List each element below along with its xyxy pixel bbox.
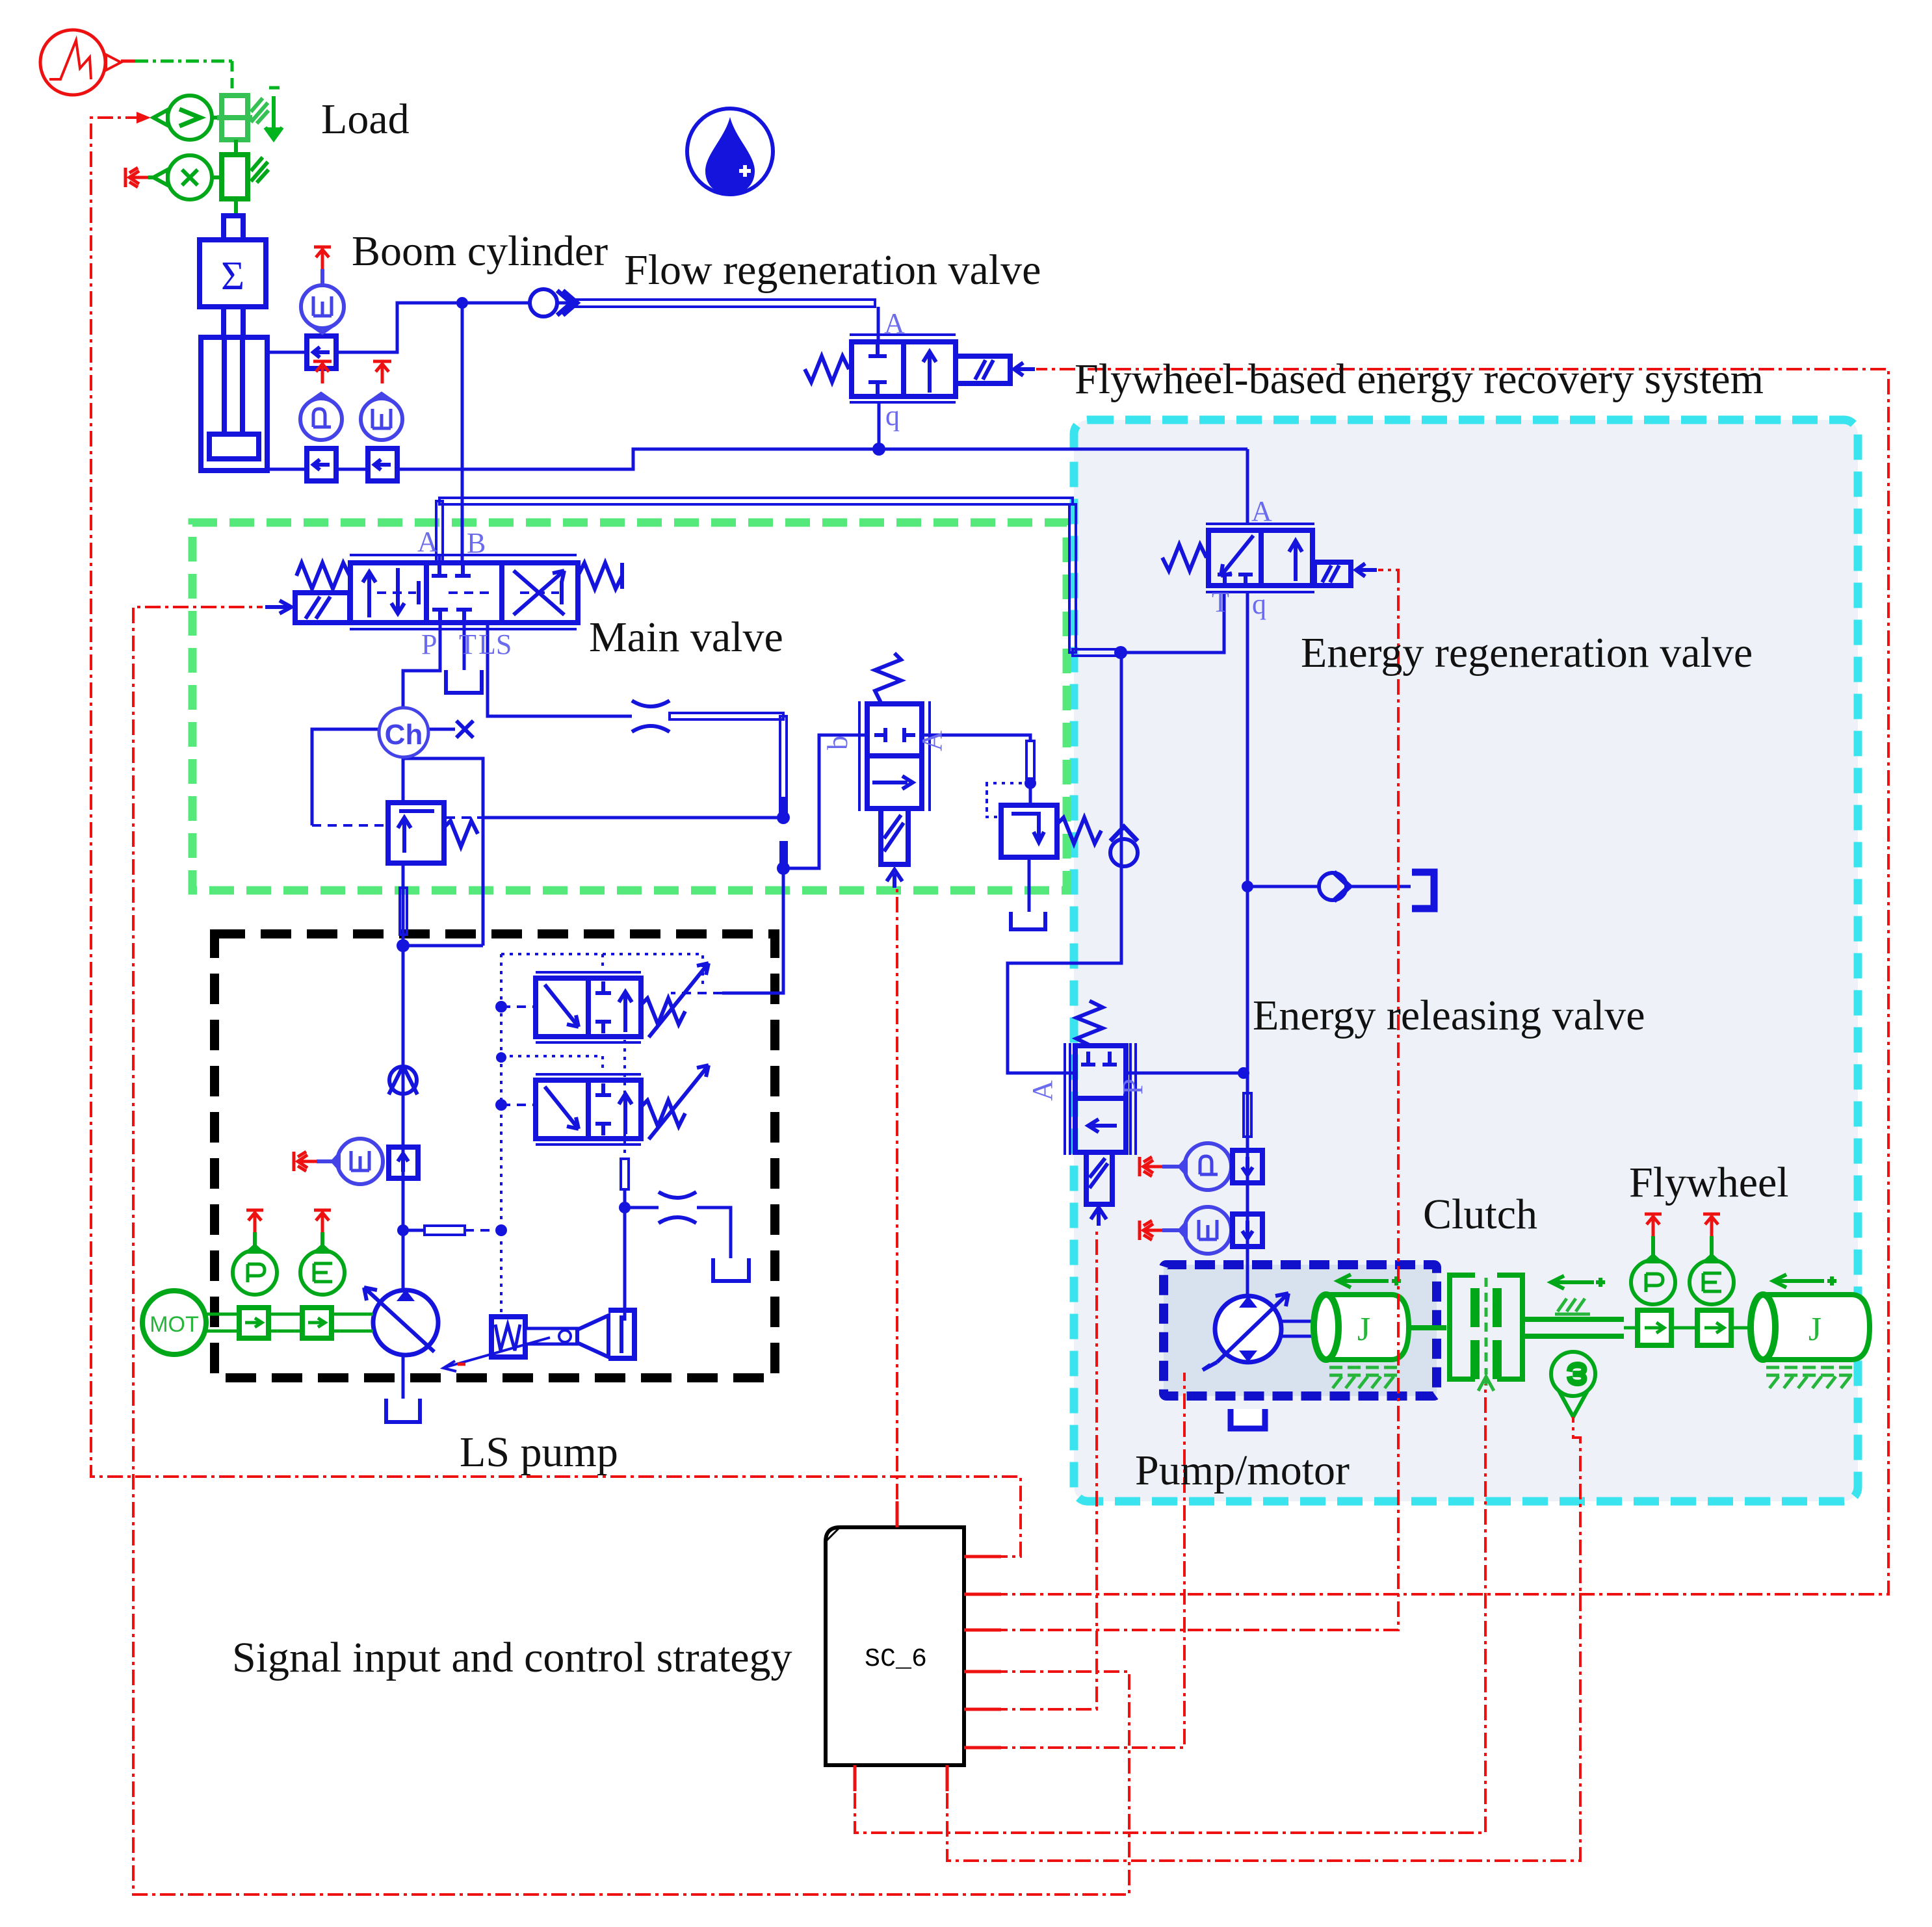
svg-text:SC_6: SC_6 <box>865 1645 927 1674</box>
red arrow above E (LS pump) <box>314 1210 331 1232</box>
sensor circle pressure (releasing line) <box>1180 1143 1231 1190</box>
svg-text:A: A <box>1251 495 1272 527</box>
sensor circle P (flywheel) <box>1631 1256 1675 1304</box>
pipe LS to right <box>670 713 783 719</box>
red arrow above flow sensor <box>314 247 331 269</box>
sensor circle E (flywheel) <box>1690 1256 1734 1304</box>
flow regeneration valve <box>805 335 1010 402</box>
wire red pump/motor displacement signal (pin6) <box>964 1373 1184 1748</box>
wire dotted pilot of relief <box>987 783 1030 817</box>
actuator right <box>1314 562 1351 586</box>
wire dotted T rail between valves <box>623 1040 626 1159</box>
wire dashed into LS control valve <box>671 992 722 994</box>
check valve on regen drop line <box>1110 827 1138 866</box>
svg-text:MOT: MOT <box>150 1312 199 1337</box>
wire pump to tank below box <box>402 1354 405 1399</box>
wire T rail to junction <box>623 1189 627 1208</box>
wire pilot valve A port to relief <box>921 735 1030 741</box>
main valve 4/3 <box>295 555 622 629</box>
svg-text:LS pump: LS pump <box>460 1429 618 1476</box>
wire junction to bypass <box>403 944 483 948</box>
pump displacement actuator <box>443 1310 634 1371</box>
node flow valve q junction <box>872 443 885 456</box>
wire regen valve q line down to pump <box>1246 592 1249 1295</box>
left cell closed stubs <box>1218 575 1253 583</box>
electric motor MOT <box>142 1291 206 1354</box>
svg-text:Energy releasing valve: Energy releasing valve <box>1253 992 1645 1039</box>
compensator valve <box>388 803 478 863</box>
signal box E (flywheel) <box>1697 1310 1755 1345</box>
wire junction to relief valve <box>1029 783 1032 805</box>
sensor tap box (q line upper) <box>1233 1150 1262 1183</box>
pipe below LS junction <box>779 841 788 866</box>
wire junction to orifice <box>625 1208 731 1258</box>
wire pipe end down to valve A <box>877 307 880 342</box>
svg-text:Ch: Ch <box>385 719 423 751</box>
blue arrow into main valve actuator <box>265 601 291 614</box>
pipe LS down <box>780 716 787 818</box>
wire Ch bottom to compensator top <box>402 757 405 803</box>
actuator right <box>956 356 1010 383</box>
cell3 cross <box>514 571 564 615</box>
sensor tap box e <box>368 448 397 481</box>
pipe to flow regeneration valve <box>568 300 875 307</box>
box pump/motor (blue dash-dot, light fill) <box>1164 1265 1437 1396</box>
ground hatch velocity <box>251 98 268 123</box>
bottom cell arrow <box>1088 1119 1117 1132</box>
bottom cell arrow right <box>872 776 913 789</box>
svg-text:T: T <box>459 628 476 660</box>
rod load to sigma <box>234 199 238 216</box>
wire LS down into LS pump box <box>722 868 783 993</box>
node pump line lower junction <box>397 1224 409 1236</box>
inertia J (pump side) <box>1314 1295 1409 1360</box>
right cell open arrow <box>923 352 936 393</box>
svg-text:B: B <box>467 527 486 559</box>
left cell diagonal arrow <box>1221 536 1253 576</box>
red sink arrow of x transducer <box>125 168 148 187</box>
svg-text:b: b <box>822 736 854 750</box>
wire Ch left pilot to compensator <box>312 729 379 825</box>
ground hatch transducer <box>251 157 268 183</box>
pipe down to relief <box>1026 741 1034 779</box>
wire sensor box to riser <box>336 303 532 352</box>
power sensor circle (LS pump) <box>333 1139 383 1184</box>
red arrow sink (pressure sensor) <box>1140 1157 1162 1176</box>
element damper on pilot <box>424 1226 465 1235</box>
wire check valve branch <box>1247 885 1411 888</box>
relief valve pilot <box>987 783 1101 857</box>
wire bypass right of compensator <box>403 758 483 946</box>
signal box P (LS pump) <box>239 1308 268 1338</box>
svg-text:Energy regeneration valve: Energy regeneration valve <box>1301 629 1753 677</box>
LS pump control valve upper <box>536 963 709 1042</box>
sensor tap box p <box>307 448 336 481</box>
sensor tap box q (rod side) <box>307 336 336 369</box>
LS pump variable displacement pump <box>364 1287 438 1355</box>
pipe on pump line at green box bottom <box>400 888 407 935</box>
svg-text:P: P <box>421 628 437 660</box>
check valve on q branch <box>1319 872 1350 901</box>
wire compensator bottom down <box>402 863 405 1293</box>
wire dotted rect upper valve <box>501 954 703 988</box>
position transducer body <box>222 155 248 199</box>
box main valve (green dashed) <box>192 523 1067 890</box>
energy regeneration valve <box>1162 524 1351 592</box>
wire main valve LS port to orifice <box>488 623 632 716</box>
wire red main valve pilot signal (pin4) <box>133 607 1129 1895</box>
blue arrow into regen valve actuator <box>1356 563 1377 576</box>
pipe on q line <box>1244 1093 1251 1137</box>
wire pump junction to element <box>403 1229 424 1232</box>
signal generator (red circle with waveform) <box>40 30 121 95</box>
position transducer circle x <box>153 140 236 200</box>
tank relief <box>1011 912 1045 929</box>
wire red energy-regen valve signal (pin3) <box>964 570 1398 1630</box>
node pilot dots <box>495 1001 507 1013</box>
wire relief to tank <box>1028 857 1031 912</box>
blue arrow into flow valve actuator <box>1014 363 1035 376</box>
green signal wire from generator <box>121 60 135 63</box>
wire LS to compensator spring <box>484 816 780 820</box>
wire regen valve T stub down <box>1121 592 1224 653</box>
wire cylinder rod-side port to sensor box <box>267 351 307 354</box>
plug X <box>456 721 473 738</box>
svg-text:Main valve: Main valve <box>589 614 783 661</box>
wire red clutch signal (bottom pin 1) <box>855 1384 1485 1833</box>
wire regen valve A stub <box>1246 449 1249 524</box>
wire junction to pilot valve b port <box>783 735 867 868</box>
boom cylinder <box>201 337 267 471</box>
green motion arrow <box>265 88 282 139</box>
energy sensor circle e <box>361 394 402 440</box>
svg-text:Σ: Σ <box>221 254 244 298</box>
svg-text:Flow regeneration valve: Flow regeneration valve <box>624 246 1041 294</box>
pipe A to cyan box horizontal <box>439 498 1073 504</box>
svg-text:q: q <box>885 400 900 432</box>
check valve boom line <box>530 289 577 317</box>
svg-text:q: q <box>1252 588 1266 620</box>
svg-text:Flywheel-based energy recovery: Flywheel-based energy recovery system <box>1075 356 1764 403</box>
green arrow over flywheel <box>1773 1274 1836 1287</box>
red arrow sink (energy sensor) <box>1140 1221 1162 1240</box>
svg-text:Signal input and control strat: Signal input and control strategy <box>232 1634 792 1681</box>
wire flow valve q stub <box>878 402 881 449</box>
closed port bracket <box>1412 872 1434 909</box>
node LS-b junction <box>777 862 790 875</box>
sensor circle E (LS pump) <box>300 1246 345 1295</box>
wire dashed pilots to valves <box>501 1007 536 1105</box>
spring left <box>1162 545 1207 571</box>
wire dashed element to pilot rail <box>465 1229 501 1232</box>
pressure sensor circle p <box>300 394 342 440</box>
shaft clutch to flywheel <box>1522 1319 1638 1336</box>
top cell closed stubs <box>874 728 915 742</box>
wire red velocity command (pin1) <box>91 118 1021 1557</box>
sensor tap box (pump line) <box>389 1147 418 1178</box>
node T junction <box>619 1202 631 1213</box>
port labels energy releasing valve <box>1026 1080 1058 1101</box>
wire red compensator pilot (top pin) <box>896 889 898 1527</box>
energy releasing valve <box>1065 1001 1136 1226</box>
svg-text:A: A <box>884 307 905 339</box>
Ch chamber circle <box>379 708 428 757</box>
wire dotted rect lower valve <box>501 1056 603 1076</box>
flywheel inertia J <box>1751 1295 1870 1360</box>
clutch dashed arrow <box>1478 1377 1494 1391</box>
svg-text:Pump/motor: Pump/motor <box>1135 1447 1350 1494</box>
rod sigma to cylinder <box>224 307 243 337</box>
port labels pilot valve <box>822 736 854 750</box>
pilot compensated valve (vertical, right) <box>859 653 930 888</box>
green line x transducer to sink <box>148 175 153 179</box>
node LS-compensator junction <box>777 811 790 824</box>
svg-text:J: J <box>1808 1311 1821 1348</box>
wire red flow-regen valve signal (pin2) <box>964 369 1888 1594</box>
shaft MOT to pump <box>206 1314 373 1331</box>
node relief junction <box>1025 777 1036 789</box>
spring left <box>805 356 849 382</box>
wire releasing valve P port <box>1125 1072 1244 1075</box>
spring left <box>296 563 350 589</box>
svg-text:LS: LS <box>478 628 512 660</box>
cell2 closed <box>432 565 471 576</box>
port stubs A B <box>439 555 462 563</box>
svg-text:T: T <box>1212 586 1229 618</box>
red arrow between tap box and pressure sensor <box>313 361 332 383</box>
actuator left hatched <box>295 593 350 623</box>
svg-text:Flywheel: Flywheel <box>1629 1159 1789 1206</box>
wire cylinder bottom port to long A-line <box>267 449 1247 469</box>
pipe down inside cyan border <box>1069 504 1076 653</box>
check valve pump line <box>389 1066 417 1094</box>
wire main valve P port to Ch <box>403 623 440 708</box>
wire main valve T port to tank <box>463 623 466 670</box>
svg-text:P: P <box>1117 1079 1149 1094</box>
red arrow sink (power sensor) <box>294 1152 317 1171</box>
pipe on T rail <box>621 1159 629 1189</box>
red arrow above P flywheel <box>1645 1214 1662 1236</box>
top cell closed stubs <box>1081 1052 1117 1065</box>
svg-text:Load: Load <box>321 96 410 143</box>
wire dotted pilot rail <box>500 954 503 1317</box>
node q-check junction <box>1242 881 1253 892</box>
node releasing valve P junction <box>1238 1067 1249 1079</box>
spring top <box>1077 1001 1103 1045</box>
svg-text:A: A <box>1026 1080 1058 1101</box>
svg-text:ω: ω <box>1558 1362 1591 1386</box>
ground hatch under J <box>1329 1367 1398 1388</box>
velocity source damper body <box>217 96 252 140</box>
wire dashed pilot into compensator <box>312 824 388 827</box>
pump/motor variable unit <box>1203 1293 1288 1370</box>
signal box P (flywheel) <box>1638 1310 1697 1345</box>
spring top <box>875 653 901 704</box>
clutch dashed center <box>1485 1278 1488 1365</box>
green dashed drop to load <box>231 61 234 94</box>
wire Ch right to plug <box>428 728 455 731</box>
box LS pump (black dash) <box>215 934 775 1378</box>
actuator bottom hatched <box>881 808 908 864</box>
svg-text:Boom cylinder: Boom cylinder <box>352 227 608 275</box>
svg-text:A: A <box>417 526 438 558</box>
tank LS pump right <box>713 1258 749 1281</box>
signal box E (LS pump) <box>302 1308 332 1338</box>
wire red energy-releasing valve signal (pin5) <box>964 1227 1097 1709</box>
node regen T junction <box>1114 646 1127 659</box>
sensor circle energy (releasing line) <box>1180 1207 1231 1254</box>
red arrow above energy sensor <box>373 361 391 383</box>
SC_6 supercomponent box <box>826 1527 964 1765</box>
wire T junction down to displacement actuator <box>623 1208 627 1321</box>
red arrow above P (LS pump) <box>246 1210 263 1232</box>
sigma mass block <box>200 240 266 307</box>
LS pump control valve lower <box>536 1065 709 1145</box>
tank LS pump <box>386 1399 420 1422</box>
ground hatch under flywheel <box>1766 1367 1857 1388</box>
speed sensor omega <box>1551 1352 1595 1417</box>
right cell arrow up <box>1289 541 1302 581</box>
bearing hatch above shaft <box>1555 1299 1590 1314</box>
node B riser junction <box>456 297 468 309</box>
green arrow over pump J <box>1338 1274 1401 1287</box>
blue arrow up into actuator <box>1091 1208 1106 1226</box>
red arrow above E flywheel <box>1703 1214 1720 1236</box>
wire red flywheel speed signal (bottom pin 2) <box>947 1417 1580 1861</box>
plug under pump/motor <box>1231 1409 1265 1429</box>
wire check valve to pipe <box>558 302 568 305</box>
wire dotted stub upper valve top <box>601 954 604 974</box>
clutch <box>1409 1275 1522 1379</box>
orifice LS pump <box>659 1192 696 1223</box>
sensor tap box (q line lower) <box>1233 1214 1262 1247</box>
shaft pump to J <box>1281 1321 1315 1336</box>
pipe main valve A port riser <box>436 501 443 563</box>
node pump line junction <box>397 939 410 952</box>
velocity source circle <box>153 96 221 140</box>
wire dashed into compensator spring <box>446 816 484 819</box>
green arrow over clutch shaft <box>1551 1276 1605 1289</box>
fluid properties icon <box>687 109 773 194</box>
left cell closed symbols <box>868 344 887 394</box>
svg-text:Clutch: Clutch <box>1423 1191 1537 1238</box>
box flywheel-based energy recovery system (cyan dashed, light fill) <box>1074 420 1858 1501</box>
wire junction down through check valve to releasing valve A <box>1008 653 1121 1073</box>
tank T port <box>446 670 482 693</box>
sensor circle P (LS pump) <box>233 1246 277 1295</box>
wire junction down to main valve B port <box>461 303 464 563</box>
svg-text:A: A <box>916 731 948 751</box>
blue arrow up into actuator <box>887 870 902 888</box>
actuator below <box>1086 1152 1112 1204</box>
cell1 arrows <box>363 572 376 617</box>
spring right <box>578 563 622 589</box>
orifice LS <box>632 701 670 732</box>
svg-text:J: J <box>1357 1311 1370 1348</box>
pipe to T junction <box>1073 649 1121 656</box>
flow sensor circle <box>301 285 344 333</box>
